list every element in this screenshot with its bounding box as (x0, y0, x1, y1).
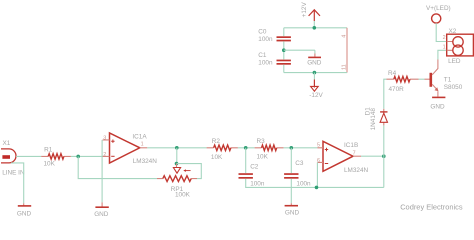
junction -12V rail (313, 71, 317, 75)
ground at IC1A pin 3 (101, 202, 103, 206)
svg-text:10K: 10K (211, 154, 223, 161)
svg-text:LINE IN: LINE IN (2, 170, 25, 177)
wire to mid ground (284, 49, 315, 51)
wire IC1A output to R2 (147, 147, 206, 149)
svg-text:100n: 100n (250, 181, 265, 188)
wire +12V to rail (313, 21, 315, 28)
wire V+ to X2 pin2 (436, 23, 447, 41)
ground under X1 (23, 203, 25, 205)
junction pin6/rail (315, 186, 319, 190)
capacitor C2 (245, 148, 247, 173)
svg-text:C3: C3 (295, 160, 304, 167)
svg-text:100K: 100K (175, 192, 191, 199)
supply +12V symbol (309, 10, 320, 16)
svg-text:5: 5 (317, 143, 320, 149)
svg-text:4: 4 (341, 35, 347, 38)
svg-text:T1: T1 (444, 77, 452, 84)
wire rail to -12V (313, 73, 315, 80)
capacitor C0 (283, 28, 285, 36)
capacitor C3 (290, 148, 292, 173)
junction output/D1/rail (382, 154, 386, 158)
svg-text:R2: R2 (212, 138, 221, 145)
svg-text:100n: 100n (258, 60, 273, 67)
svg-text:Codrey Electronics: Codrey Electronics (400, 203, 463, 212)
junction R3/pin5/C3 (290, 146, 294, 150)
top supply rail (284, 27, 347, 29)
svg-text:R3: R3 (257, 138, 266, 145)
svg-text:X1: X1 (3, 140, 11, 147)
svg-text:GND: GND (430, 103, 445, 110)
op-amp IC1A (103, 133, 148, 163)
svg-text:100n: 100n (258, 36, 273, 43)
svg-text:2: 2 (443, 35, 446, 41)
svg-text:R4: R4 (388, 70, 397, 77)
junction output/wiper (175, 146, 179, 150)
wire X1 sleeve to ground (11, 163, 24, 203)
svg-text:11: 11 (341, 64, 347, 70)
svg-text:+12V: +12V (301, 2, 308, 18)
junction +12V rail (313, 26, 317, 30)
wire R1 to op-amp pin 2 (71, 155, 103, 157)
svg-text:3: 3 (103, 135, 106, 141)
svg-text:10K: 10K (257, 153, 269, 160)
wire output down to wiper (176, 148, 178, 164)
wire C3 bottom to ground (290, 179, 292, 204)
svg-text:GND: GND (17, 211, 32, 218)
junction C0/C1/GND (282, 48, 286, 52)
svg-text:-12V: -12V (309, 92, 323, 99)
junction R2/R3/C2 (244, 146, 248, 150)
svg-text:LM324N: LM324N (133, 158, 158, 165)
wire C0 to C1 (283, 41, 285, 59)
RP1 adjust arrow (185, 170, 191, 172)
transistor T1 S8050 (425, 78, 431, 80)
diode D1 1N4148 (383, 109, 385, 126)
wire output up to D1 (383, 125, 385, 156)
svg-text:1N4148: 1N4148 (370, 108, 377, 131)
wire R3 to IC1B pin 5 (284, 147, 318, 149)
wire X1 tip to R1 (16, 155, 41, 157)
wire feedback down-right to RP1 (78, 156, 157, 178)
wire R4 to T1 base (419, 78, 425, 80)
bottom supply rail (284, 72, 347, 74)
connector X1 (1, 149, 16, 163)
svg-text:GND: GND (285, 210, 300, 217)
svg-text:S8050: S8050 (444, 84, 463, 91)
wire D1 up to R4 (384, 79, 387, 109)
resistor R4 (387, 78, 419, 80)
wire RP1 right terminal loop (177, 164, 202, 179)
svg-text:10K: 10K (44, 161, 56, 168)
svg-text:GND: GND (307, 60, 322, 67)
svg-text:C0: C0 (258, 28, 267, 35)
connector X2 (447, 34, 474, 56)
junction wiper/loop (175, 162, 179, 166)
svg-text:C2: C2 (250, 164, 259, 171)
ground under T1 (432, 96, 445, 98)
wire X2 pin1 to T1 collector (438, 50, 447, 59)
RP1 wiper (176, 164, 178, 168)
resistor R1 (41, 155, 71, 157)
svg-text:470R: 470R (389, 86, 405, 93)
svg-text:7: 7 (353, 150, 356, 156)
wire output down to rail (383, 156, 385, 187)
wire C1 to bottom rail (283, 65, 285, 73)
svg-text:X2: X2 (449, 28, 457, 35)
ground mid supply (314, 50, 316, 53)
resistor R2 (207, 147, 238, 149)
wire op-amp pin 3 to ground (101, 140, 103, 203)
svg-text:IC1B: IC1B (344, 142, 358, 149)
svg-text:V+(LED): V+(LED) (426, 5, 451, 12)
capacitor C1 (277, 60, 291, 62)
ground under C3 (290, 203, 292, 205)
svg-text:GND: GND (94, 211, 109, 218)
terminal V+(LED) (432, 14, 441, 23)
power box right edge (IC1 power gate) (346, 28, 348, 73)
potentiometer RP1 (157, 178, 197, 180)
resistor R3 (255, 147, 284, 149)
svg-text:C1: C1 (258, 52, 267, 59)
wire IC1B output (361, 155, 384, 157)
svg-text:R1: R1 (44, 147, 53, 154)
junction node R1/pin2/feedback (76, 155, 80, 159)
svg-text:1: 1 (141, 142, 144, 148)
svg-text:1: 1 (443, 44, 446, 50)
svg-text:LM324N: LM324N (344, 167, 369, 174)
svg-text:100n: 100n (296, 180, 311, 187)
supply -12V symbol (313, 80, 315, 88)
wire C2 bottom to feedback rail (246, 179, 384, 188)
svg-text:IC1A: IC1A (132, 134, 147, 141)
svg-text:2: 2 (103, 152, 106, 158)
wire R2 to R3 (238, 147, 255, 149)
op-amp IC1B (317, 141, 361, 171)
svg-text:LED: LED (448, 58, 461, 65)
wire pin6 down to rail (316, 162, 318, 187)
